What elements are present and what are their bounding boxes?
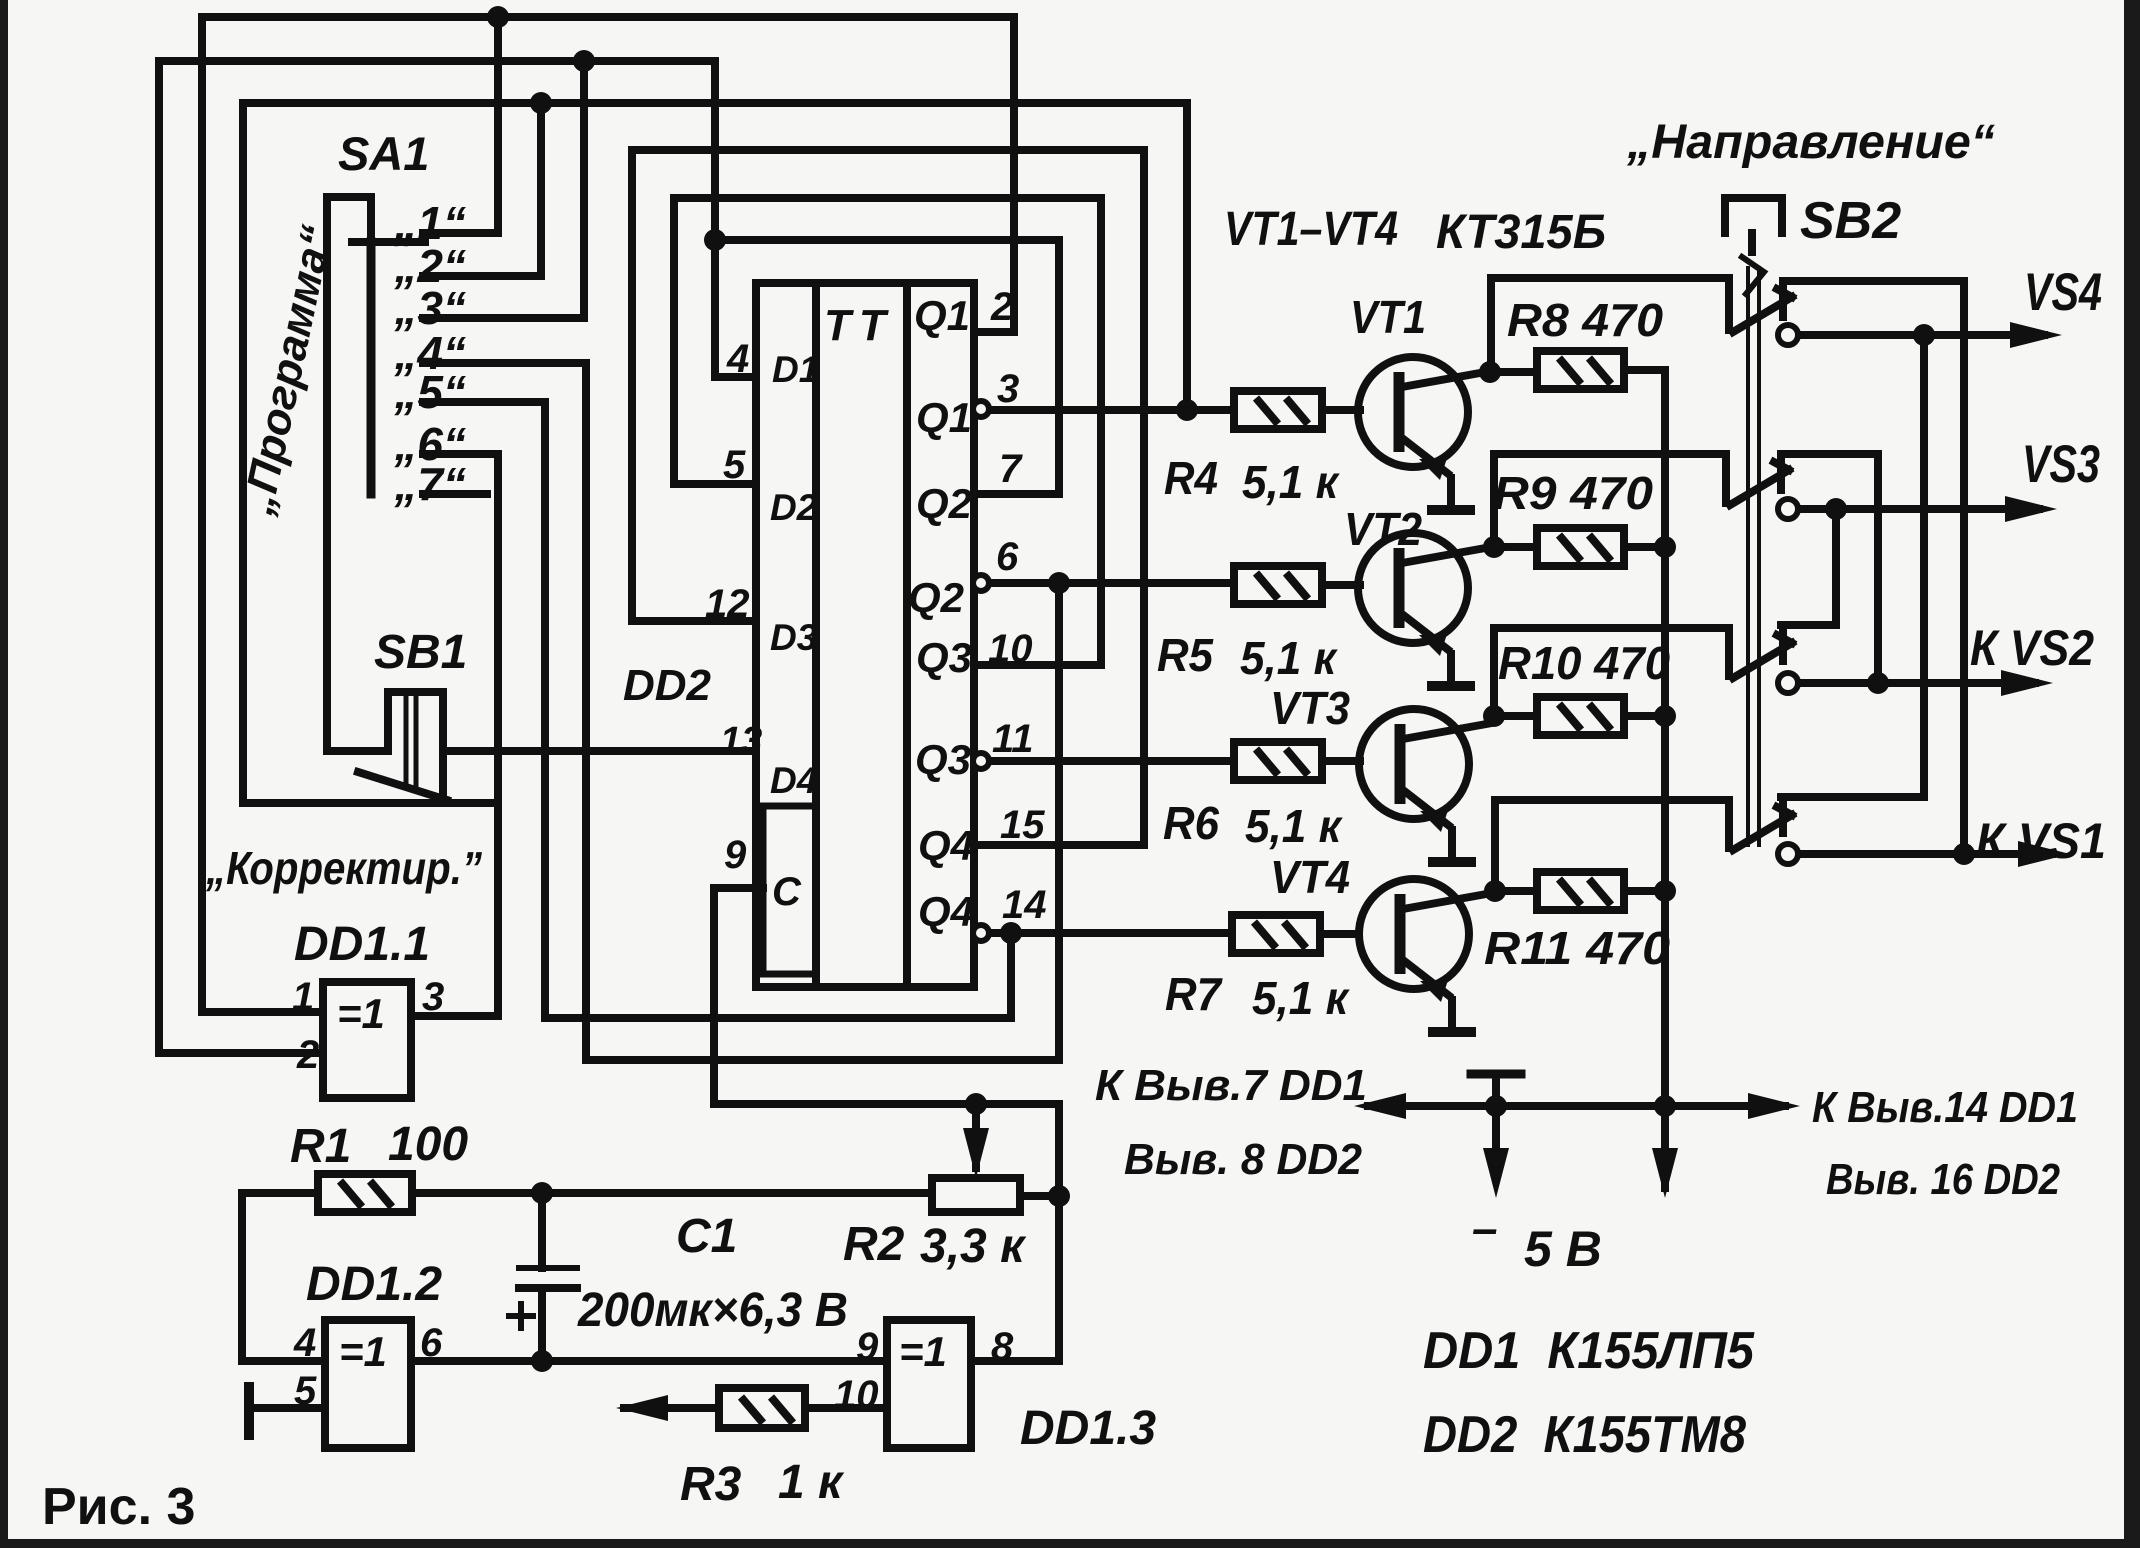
svg-text:200мк×6,3 В: 200мк×6,3 В [577, 1284, 848, 1337]
svg-text:D4: D4 [770, 760, 817, 801]
svg-text:SB1: SB1 [374, 626, 467, 679]
svg-text:9: 9 [856, 1325, 879, 1369]
svg-text:Q3: Q3 [916, 634, 972, 682]
svg-text:C1: C1 [676, 1210, 737, 1263]
svg-text:R9 470: R9 470 [1493, 467, 1653, 519]
svg-text:3: 3 [997, 367, 1019, 411]
svg-text:3,3 к: 3,3 к [920, 1220, 1027, 1273]
svg-text:5: 5 [723, 443, 746, 487]
svg-text:R8 470: R8 470 [1507, 294, 1663, 346]
svg-text:4: 4 [726, 337, 749, 381]
svg-text:TT: TT [824, 301, 894, 350]
svg-text:D1: D1 [772, 349, 819, 390]
svg-text:D3: D3 [770, 617, 818, 658]
svg-text:Выв. 16 DD2: Выв. 16 DD2 [1826, 1155, 2060, 1204]
svg-text:4: 4 [293, 1321, 316, 1365]
svg-text:Q2: Q2 [916, 480, 972, 528]
svg-text:SA1: SA1 [338, 127, 429, 180]
svg-text:КТ315Б: КТ315Б [1436, 206, 1606, 259]
svg-text:5: 5 [294, 1369, 317, 1413]
svg-text:7: 7 [999, 447, 1023, 491]
svg-text:VS3: VS3 [2022, 435, 2100, 494]
svg-text:Q1: Q1 [916, 394, 972, 442]
svg-text:2: 2 [990, 285, 1013, 329]
svg-text:=1: =1 [337, 990, 385, 1037]
svg-text:DD1.2: DD1.2 [306, 1258, 442, 1311]
svg-text:8: 8 [991, 1325, 1014, 1369]
svg-text:DD1.3: DD1.3 [1020, 1402, 1156, 1455]
svg-text:SB2: SB2 [1800, 192, 1901, 250]
svg-text:3: 3 [422, 975, 444, 1019]
svg-text:К Выв.7 DD1: К Выв.7 DD1 [1095, 1061, 1367, 1110]
svg-text:D2: D2 [770, 487, 818, 528]
svg-text:„5“: „5“ [393, 366, 466, 418]
svg-text:VT1–VT4: VT1–VT4 [1224, 203, 1398, 256]
svg-text:C: C [772, 870, 802, 914]
svg-text:Q3: Q3 [915, 736, 971, 784]
svg-text:Рис. 3: Рис. 3 [42, 1478, 195, 1536]
svg-text:15: 15 [1000, 803, 1045, 847]
svg-text:VT2: VT2 [1344, 503, 1422, 555]
svg-text:Q2: Q2 [908, 574, 964, 622]
svg-text:5,1 к: 5,1 к [1252, 972, 1351, 1024]
svg-text:2: 2 [296, 1033, 319, 1077]
svg-text:100: 100 [388, 1118, 468, 1171]
svg-text:VT1: VT1 [1350, 291, 1426, 343]
svg-text:VT4: VT4 [1270, 851, 1350, 903]
svg-text:5 В: 5 В [1524, 1221, 1602, 1277]
svg-text:13: 13 [720, 720, 762, 762]
svg-text:DD1 К155ЛП5: DD1 К155ЛП5 [1423, 1322, 1755, 1380]
svg-text:R4: R4 [1164, 452, 1218, 504]
svg-text:R10 470: R10 470 [1498, 637, 1670, 689]
svg-text:R3: R3 [680, 1458, 742, 1511]
svg-text:5,1 к: 5,1 к [1242, 456, 1341, 508]
svg-text:R6: R6 [1163, 797, 1219, 849]
svg-text:„Корректир.”: „Корректир.” [205, 842, 482, 894]
svg-text:DD2: DD2 [623, 661, 712, 710]
svg-text:R5: R5 [1157, 629, 1214, 681]
svg-text:5,1 к: 5,1 к [1245, 800, 1344, 852]
svg-text:DD1.1: DD1.1 [294, 918, 430, 971]
svg-text:VT3: VT3 [1270, 682, 1350, 734]
svg-text:К VS1: К VS1 [1976, 813, 2106, 869]
svg-text:6: 6 [996, 535, 1019, 579]
svg-text:–: – [1472, 1202, 1498, 1254]
svg-text:9: 9 [724, 833, 747, 877]
svg-text:Q4: Q4 [918, 888, 974, 936]
svg-text:=1: =1 [339, 1328, 387, 1375]
svg-text:1 к: 1 к [778, 1456, 845, 1509]
svg-text:11: 11 [992, 717, 1034, 761]
svg-text:10: 10 [988, 627, 1033, 671]
svg-text:10: 10 [834, 1373, 879, 1417]
svg-text:R7: R7 [1165, 968, 1223, 1020]
svg-text:К Выв.14 DD1: К Выв.14 DD1 [1812, 1083, 2078, 1132]
svg-text:5,1 к: 5,1 к [1240, 632, 1339, 684]
svg-text:„Направление“: „Направление“ [1626, 116, 1995, 169]
svg-text:14: 14 [1002, 883, 1047, 927]
svg-text:6: 6 [420, 1321, 443, 1365]
svg-text:1: 1 [292, 975, 314, 1019]
svg-text:12: 12 [705, 582, 750, 626]
svg-text:„7“: „7“ [393, 458, 466, 510]
svg-text:Q1: Q1 [914, 292, 970, 340]
svg-text:R2: R2 [843, 1218, 905, 1271]
svg-text:DD2 К155ТМ8: DD2 К155ТМ8 [1423, 1406, 1746, 1464]
svg-text:VS4: VS4 [2024, 263, 2102, 322]
svg-text:К VS2: К VS2 [1970, 620, 2094, 676]
svg-text:=1: =1 [899, 1328, 947, 1375]
svg-text:Q4: Q4 [918, 822, 974, 870]
svg-text:R1: R1 [290, 1120, 351, 1173]
svg-text:Выв. 8 DD2: Выв. 8 DD2 [1124, 1135, 1363, 1184]
svg-text:R11 470: R11 470 [1484, 922, 1670, 974]
